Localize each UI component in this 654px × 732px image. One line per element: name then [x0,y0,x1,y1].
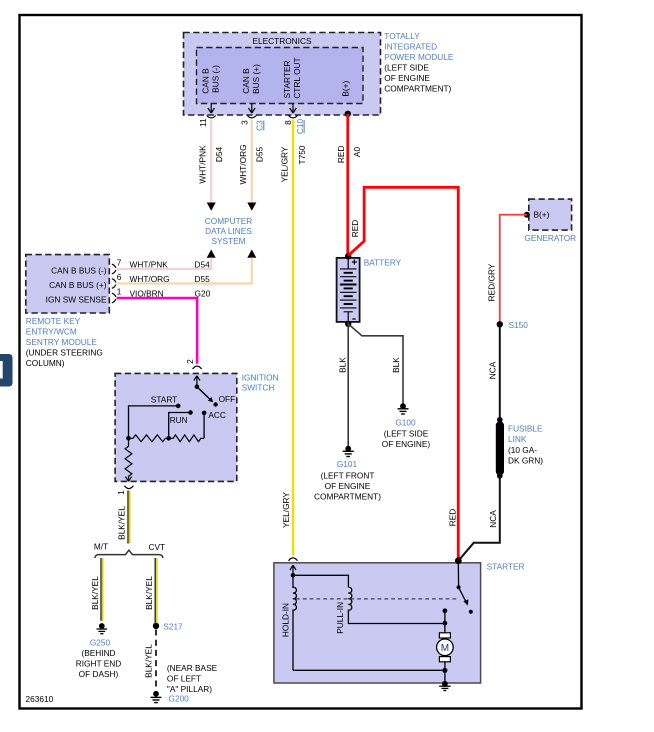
svg-text:BUS (+): BUS (+) [251,64,261,94]
motor M1 [437,633,454,671]
svg-text:(UNDER STEERING: (UNDER STEERING [26,347,103,357]
wire BLK/YEL CVT branch [155,558,157,623]
svg-text:SYSTEM: SYSTEM [211,236,245,246]
label S150 [509,320,529,330]
pin number 3 [240,120,250,125]
ignition switch label [242,372,279,392]
side tab [0,354,13,387]
svg-text:OF LEFT: OF LEFT [167,674,201,684]
svg-text:T750: T750 [297,145,307,164]
svg-text:STARTER: STARTER [282,61,292,99]
svg-text:(LEFT SIDE: (LEFT SIDE [384,63,429,73]
svg-text:COMPUTER: COMPUTER [205,216,252,226]
label NCA upper [488,361,498,379]
computer data lines down arrow D54 [207,203,216,211]
TIPM pin label STARTER CTRL OUT [282,57,302,98]
label BATTERY [364,258,402,268]
svg-text:(NEAR BASE: (NEAR BASE [167,663,218,673]
svg-text:CAN B BUS (+): CAN B BUS (+) [49,280,107,290]
svg-text:8: 8 [283,120,293,125]
svg-text:(10 GA-: (10 GA- [508,445,537,455]
svg-text:SWITCH: SWITCH [242,383,275,393]
svg-text:YEL/GRY: YEL/GRY [280,146,290,182]
label HOLD-IN [281,603,291,637]
TIPM pin 8 arrow [289,104,298,118]
wire split brace [95,550,163,558]
label GENERATOR [524,233,576,243]
svg-text:B(+): B(+) [341,81,351,97]
ground G200 [151,691,162,703]
svg-text:CTRL OUT: CTRL OUT [292,57,302,98]
wire RED/GRY [500,215,527,322]
svg-text:D54: D54 [195,259,211,269]
svg-text:START: START [151,395,177,405]
resistor R1 horizontal [129,435,169,442]
TIPM pin label B(+) [341,81,351,97]
label WHT/ORG [238,144,248,184]
svg-text:OFF: OFF [219,394,236,404]
svg-text:WHT/ORG: WHT/ORG [238,144,248,184]
wire BLK/YEL dashed to G200 [155,630,157,691]
label G20 [195,288,211,298]
svg-text:SENTRY MODULE: SENTRY MODULE [26,337,98,347]
svg-text:POWER MODULE: POWER MODULE [384,52,454,62]
svg-text:BLK: BLK [337,357,347,373]
fusible link [496,417,504,479]
splice S150 [497,321,503,327]
pin number 1 [117,287,122,297]
svg-text:HOLD-IN: HOLD-IN [281,603,291,637]
svg-text:STARTER: STARTER [487,562,525,572]
label PULL-IN [335,602,345,634]
resistor R2 horizontal [169,435,204,442]
label WHT/PNK [198,145,208,184]
wire VIO/BRN G20 [117,298,198,364]
svg-text:M/T: M/T [94,542,108,552]
starter ground [439,681,450,691]
label RED/GRY [487,263,497,301]
label G100 [382,418,431,450]
wire RED branch to starter [348,187,458,561]
pull-in coil [348,587,445,623]
ignition switch lever to OFF [197,387,218,407]
TIPM pin label CAN B BUS (+) [241,64,261,94]
svg-text:BLK: BLK [391,357,401,373]
wire NCA lower [458,476,500,561]
svg-text:G101: G101 [337,459,358,469]
svg-text:3: 3 [240,120,250,125]
svg-text:B(+): B(+) [534,210,550,220]
svg-text:WHT/ORG: WHT/ORG [130,274,170,284]
ignition pin 1 connector cup [124,486,133,489]
label WHT/PNK horizontal [130,259,169,269]
svg-text:TOTALLY: TOTALLY [384,31,420,41]
svg-text:DK GRN): DK GRN) [508,456,543,466]
label RED upper [336,146,346,164]
label START [151,395,177,405]
pin number 6 [117,272,122,282]
ignition switch pin 2 connector [193,366,202,369]
svg-text:263610: 263610 [26,694,54,704]
computer data lines system label [205,216,253,246]
label M/T [94,542,108,552]
svg-text:D55: D55 [195,274,211,284]
label G250 [76,638,121,680]
label BLK left [337,357,347,373]
svg-text:WHT/PNK: WHT/PNK [130,259,169,269]
svg-text:D54: D54 [214,147,224,163]
starter box [274,563,481,683]
TIPM location label [384,31,454,94]
svg-text:C3: C3 [255,120,265,131]
wire YEL/GRY T750 vertical [292,120,294,556]
wire WHT/ORG D55 horizontal [117,258,252,284]
figure number 263610 [26,694,54,704]
connector C10 [295,119,305,135]
svg-text:D55: D55 [255,147,265,163]
svg-text:NCA: NCA [488,510,498,528]
wire contact to motor [444,611,446,633]
ignition switch wiper arrow [194,376,200,387]
pin number 7 [117,258,122,268]
label BLK/YEL CVT [144,576,154,610]
TIPM ELECTRONICS inner box [197,36,364,104]
contact stud node [443,608,448,613]
svg-text:REMOTE KEY: REMOTE KEY [26,316,81,326]
label T750 [297,145,307,164]
computer data lines up arrow D55 [247,250,256,258]
svg-text:2: 2 [185,359,195,364]
svg-text:LINK: LINK [508,434,527,444]
wire WHT/PNK D54 horizontal [117,258,212,270]
ignition switch output arrow pin 1 [125,477,131,482]
label BLK/YEL M/T [90,576,100,610]
label D54 horizontal [195,259,211,269]
svg-text:ENTRY/WCM: ENTRY/WCM [26,326,77,336]
svg-text:6: 6 [117,272,122,282]
ground G250 [97,623,108,634]
svg-text:CAN B: CAN B [201,68,211,94]
pin number 11 [198,118,208,127]
svg-text:OF ENGINE: OF ENGINE [384,73,430,83]
svg-text:RED: RED [336,146,346,164]
svg-text:COMPARTMENT): COMPARTMENT) [314,492,381,502]
node pull-in junction [443,621,448,626]
svg-text:BATTERY: BATTERY [364,258,402,268]
svg-text:BLK/YEL: BLK/YEL [117,506,127,540]
RUN contact and wire [169,410,193,438]
ground G100 [398,403,409,414]
op TIPM module outer box [184,33,381,116]
label D55 horizontal [195,274,211,284]
node left resistor junction [126,436,131,441]
ACC contact and wire [202,411,207,439]
remote key module label [26,316,103,368]
label G200 [169,693,190,703]
starter terminal node [455,557,462,564]
wire to starter ground [444,670,446,683]
svg-text:RUN: RUN [170,415,188,425]
label D54 [214,147,224,163]
connector C3 [255,120,265,131]
svg-text:S150: S150 [509,320,529,330]
svg-text:GENERATOR: GENERATOR [524,233,576,243]
hold-in coil [293,575,296,670]
svg-text:DATA LINES: DATA LINES [205,226,252,236]
svg-text:(BEHIND: (BEHIND [81,648,115,658]
svg-text:RIGHT END: RIGHT END [76,659,121,669]
wire WHT/ORG D55 vertical [251,120,253,204]
svg-text:G200: G200 [169,693,190,703]
label NCA lower [488,510,498,528]
battery negative node [345,321,351,327]
svg-text:CAN B BUS (-): CAN B BUS (-) [51,266,107,276]
wire BLK to G100 [348,324,403,404]
svg-text:CAN B: CAN B [241,68,251,94]
starter input node [291,573,296,578]
pin number 2 [185,359,195,364]
battery positive node [345,253,351,259]
svg-text:G100: G100 [395,418,416,428]
svg-text:RED: RED [350,220,360,238]
label A0 [352,147,362,158]
pin number 8 [283,120,293,125]
wire WHT/PNK D54 vertical [210,120,212,204]
wire to pull-in coil [293,575,348,587]
svg-text:BUS (-): BUS (-) [211,65,221,93]
svg-text:PULL-IN: PULL-IN [335,602,345,634]
svg-text:A0: A0 [352,147,362,158]
node middle resistor junction [166,436,171,441]
label BLK/YEL dashed [144,644,154,678]
generator B+ node [524,212,530,218]
wire BLK to G101 [347,322,349,446]
mechanical link dashed [296,598,459,600]
starter input connector cup [289,558,298,561]
label VIO/BRN [130,288,164,298]
svg-text:(LEFT FRONT: (LEFT FRONT [321,471,375,481]
svg-text:ELECTRONICS: ELECTRONICS [252,36,311,46]
generator box [529,199,572,230]
label WHT/ORG horizontal [130,274,170,284]
label ACC [208,410,226,420]
ignition switch box [115,373,237,481]
wire BLK/YEL main [128,491,130,544]
svg-text:YEL/GRY: YEL/GRY [281,492,291,528]
TIPM pin label CAN B BUS (-) [201,65,221,94]
remote key module box [26,255,110,313]
svg-text:IGN SW SENSE: IGN SW SENSE [46,295,107,305]
label RED lower [447,509,457,527]
label D55 [255,147,265,163]
svg-text:ACC: ACC [208,410,226,420]
svg-text:OF ENGINE: OF ENGINE [325,481,371,491]
wire hold-in return [293,669,445,671]
starter input arrow [290,565,296,575]
wire RED A0 vertical [346,114,349,256]
svg-text:S217: S217 [163,622,183,632]
svg-text:BLK/YEL: BLK/YEL [144,644,154,678]
label BLK right [391,357,401,373]
label FUSIBLE LINK [508,424,543,466]
svg-text:C10: C10 [295,119,305,135]
wire NCA upper [499,327,501,420]
starter solenoid switch [457,561,473,614]
battery box [337,258,360,322]
label G101 [314,459,381,502]
label RED branch [350,220,360,238]
computer data lines down arrow D55 [247,203,256,211]
TIPM B(+) node dot [345,111,351,117]
TIPM pin 3 arrow [247,104,256,118]
label YEL/GRY lower [281,492,291,528]
splice S217 [153,623,159,629]
wire BLK/YEL M/T branch [101,558,103,621]
svg-text:RED/GRY: RED/GRY [487,263,497,301]
pin number 1 (ignition) [116,490,126,495]
remote key pin 6 connector [112,279,116,289]
svg-text:OF DASH): OF DASH) [79,669,119,679]
ground G101 [343,446,354,457]
resistor R3 vertical [125,438,132,480]
svg-text:G250: G250 [90,638,111,648]
svg-text:(LEFT SIDE: (LEFT SIDE [384,429,429,439]
label CVT [149,542,166,552]
svg-text:11: 11 [198,118,208,127]
TIPM pin 11 arrow [207,104,216,118]
svg-text:COMPARTMENT): COMPARTMENT) [384,84,451,94]
svg-text:COLUMN): COLUMN) [26,358,65,368]
label YEL/GRY upper [280,146,290,182]
svg-text:WHT/PNK: WHT/PNK [198,145,208,184]
remote key pin 7 connector [112,264,116,274]
svg-text:7: 7 [117,258,122,268]
label S217 [163,622,183,632]
svg-text:RED: RED [447,509,457,527]
label BLK/YEL main [117,506,127,540]
svg-text:1: 1 [117,287,122,297]
svg-text:M: M [441,643,449,654]
label RUN [170,415,188,425]
svg-text:BLK/YEL: BLK/YEL [90,576,100,610]
computer data lines up arrow D54 [207,250,216,258]
svg-text:INTEGRATED: INTEGRATED [384,42,437,52]
label OFF [219,394,236,404]
svg-text:BLK/YEL: BLK/YEL [144,576,154,610]
svg-text:FUSIBLE: FUSIBLE [508,424,543,434]
svg-text:CVT: CVT [149,542,166,552]
remote key pin 1 connector [112,293,116,303]
svg-text:NCA: NCA [488,361,498,379]
svg-text:OF ENGINE): OF ENGINE) [382,439,431,449]
starter ground node [442,668,447,673]
svg-text:IGNITION: IGNITION [242,372,279,382]
label near base of A pillar [167,663,218,694]
ignition switch wiper node [195,384,200,389]
svg-text:1: 1 [116,490,126,495]
label STARTER [487,562,525,572]
START contact and wire [129,404,181,439]
